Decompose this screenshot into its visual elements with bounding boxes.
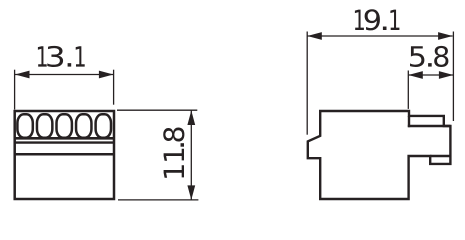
dimension 13.1 left arrow xyxy=(15,71,30,79)
dimension 19.1 text xyxy=(355,9,400,30)
body step line xyxy=(15,153,114,156)
dimension 5.8 text xyxy=(410,46,448,67)
side view step edge below tab xyxy=(408,116,410,127)
dimension 11.8 bottom arrow xyxy=(187,185,195,200)
extension line 19.1 right xyxy=(452,32,454,122)
dimension 11.8 text (rotated) xyxy=(163,128,184,178)
collar edge line lower xyxy=(15,141,114,143)
hole 4 xyxy=(76,114,91,137)
dimension 11.8 top arrow xyxy=(187,111,195,126)
dimension 5.8 line xyxy=(408,74,453,76)
dimension 13.1 line xyxy=(15,74,113,76)
extension line 11.8 bottom xyxy=(118,199,198,201)
extension line 19.1 left xyxy=(306,32,308,135)
dimension 5.8 right arrow xyxy=(439,71,454,79)
side view shelf edge under tab xyxy=(408,125,451,127)
extension line 13.1 left xyxy=(14,70,16,110)
dimension 13.1 text xyxy=(38,46,85,67)
hole 1 xyxy=(17,114,32,137)
hole 5 xyxy=(96,114,111,137)
hole 2 xyxy=(37,114,52,137)
dimension 11.8 line xyxy=(190,111,192,200)
dimension 19.1 right arrow xyxy=(438,32,453,40)
extension line 13.1 right xyxy=(113,70,115,105)
side view body outline xyxy=(308,111,451,199)
dimension 19.1 left arrow xyxy=(307,32,322,40)
extension line 11.8 top xyxy=(117,109,197,111)
side view underside edge over foot xyxy=(430,155,450,157)
dimension 19.1 line xyxy=(307,35,452,37)
dimension 5.8 left arrow xyxy=(408,71,423,79)
extension line 5.8 left xyxy=(407,71,409,109)
collar edge line upper xyxy=(15,137,114,140)
front view body outline xyxy=(15,111,114,199)
hole 3 xyxy=(57,114,72,137)
dimension 13.1 right arrow xyxy=(99,71,114,79)
